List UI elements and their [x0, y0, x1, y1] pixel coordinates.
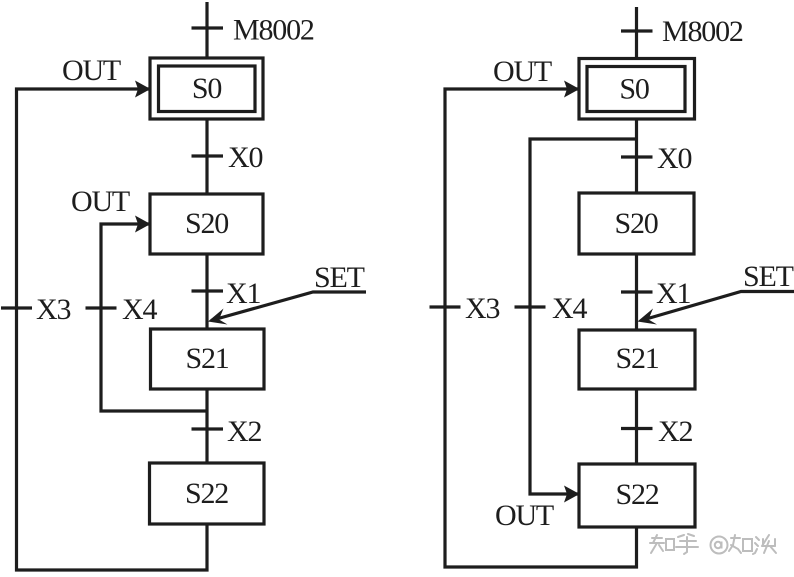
transition tick X1 [621, 290, 653, 293]
arrowhead OUT into S22 (right) [564, 486, 580, 503]
svg-text:X2: X2 [658, 415, 692, 448]
transition tick X0 [192, 154, 224, 157]
transition tick M8002 [192, 26, 224, 29]
svg-text:S0: S0 [619, 73, 648, 106]
step box S22 [579, 464, 695, 527]
svg-text:SET: SET [314, 261, 365, 294]
initial step box S0 inner [587, 67, 685, 112]
svg-text:X1: X1 [226, 277, 260, 310]
step box S22 [150, 463, 265, 524]
watermark zhihu @ruyang [650, 534, 776, 554]
glyph zhi [650, 535, 674, 553]
svg-text:S20: S20 [185, 207, 228, 240]
svg-text:S22: S22 [185, 477, 228, 510]
initial step box S0 outer [150, 58, 263, 119]
step box S21 [579, 330, 695, 389]
wire S21 to S22 [635, 389, 638, 464]
arrowhead SET into S21 (right) [638, 309, 658, 325]
step box S20 [150, 194, 263, 254]
svg-text:X2: X2 [227, 415, 261, 448]
wire branch to S22 OUT [530, 139, 637, 494]
arrowhead SET into S21 (left) [208, 309, 228, 325]
wire top stub into S0 [205, 2, 208, 58]
wire OUT arrow to S0 [17, 89, 208, 570]
transition tick X3 [430, 305, 461, 308]
transition tick X4 [515, 305, 546, 308]
svg-text:X4: X4 [552, 292, 587, 325]
svg-text:OUT: OUT [493, 55, 552, 88]
svg-text:M8002: M8002 [662, 15, 743, 48]
wire S20 to S21 [205, 254, 208, 329]
svg-text:S20: S20 [614, 207, 657, 240]
glyph yang [753, 535, 776, 554]
wire S0 to S20 [635, 119, 638, 193]
wire S21 to S22 [205, 389, 208, 463]
svg-text:S0: S0 [192, 72, 221, 105]
svg-text:S21: S21 [615, 342, 658, 375]
step box S21 [151, 329, 265, 389]
svg-text:SET: SET [743, 260, 794, 293]
wire OUT arrow to S20 with feedback from below S21 [101, 224, 207, 411]
transition tick X2 [192, 427, 224, 430]
arrowhead OUT into S0 (right) [564, 81, 580, 98]
svg-text:X3: X3 [36, 293, 70, 326]
svg-text:M8002: M8002 [233, 14, 314, 47]
svg-text:X1: X1 [656, 277, 690, 310]
SET leader line [641, 292, 794, 321]
transition tick X3 [1, 306, 32, 309]
transition tick X1 [192, 289, 224, 292]
transition tick X4 [86, 306, 117, 309]
step box S20 [579, 193, 694, 254]
arrowhead OUT into S0 (left) [135, 81, 151, 98]
watermark at-sign [711, 537, 728, 554]
arrowhead OUT into S20 (left) [135, 216, 151, 233]
svg-text:OUT: OUT [62, 54, 121, 87]
svg-text:S21: S21 [185, 342, 228, 375]
svg-text:OUT: OUT [495, 499, 554, 532]
svg-text:X0: X0 [657, 142, 691, 175]
svg-text:X0: X0 [228, 141, 262, 174]
wire top stub into S0 [635, 7, 638, 59]
svg-text:S22: S22 [615, 478, 658, 511]
svg-text:OUT: OUT [71, 185, 130, 218]
wire OUT arrow to S0 [445, 89, 637, 567]
initial step box S0 inner [159, 66, 256, 112]
transition tick X2 [621, 427, 653, 430]
initial step box S0 outer [579, 59, 695, 120]
wire S20 to S21 [635, 254, 638, 330]
transition tick X0 [621, 155, 653, 158]
glyph ru [729, 535, 752, 553]
glyph hu [676, 534, 698, 554]
svg-text:X3: X3 [465, 292, 499, 325]
wire S0 to S20 [205, 119, 208, 194]
svg-text:X4: X4 [122, 293, 157, 326]
transition tick M8002 [621, 29, 653, 32]
SET leader line [211, 292, 366, 321]
